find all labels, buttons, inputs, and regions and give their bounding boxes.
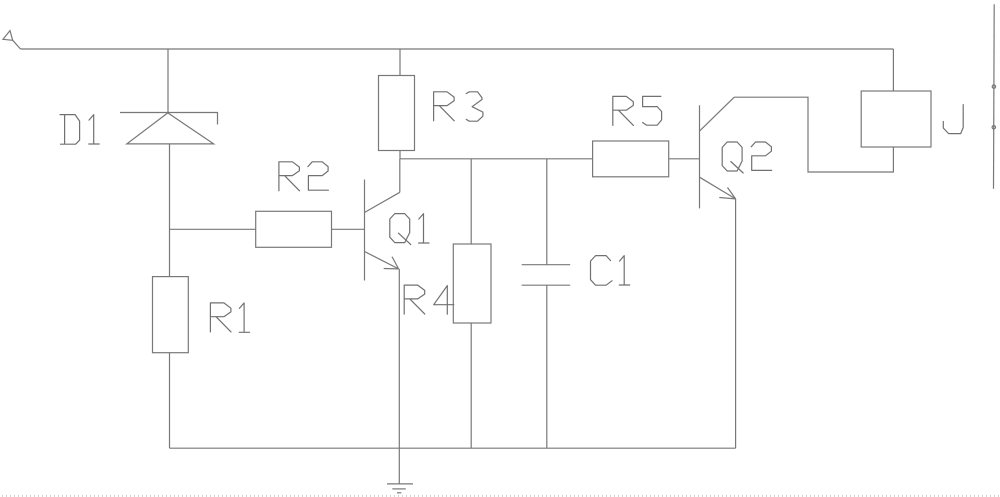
wire base branch to R2 (170, 228, 256, 230)
wire C1 stem top (546, 159, 548, 265)
wire C1 stem bottom (546, 285, 548, 448)
wire Q1 collector up (399, 159, 401, 193)
wire mid rail (400, 158, 593, 160)
label Q2 (722, 142, 772, 173)
transistor Q1 (365, 180, 400, 281)
label C1 (591, 256, 630, 286)
input terminal (3, 31, 21, 49)
label R3 (434, 92, 483, 121)
wire R2 to Q1 base (331, 228, 365, 230)
wire R4 stem bottom (470, 323, 472, 448)
wire top rail (21, 48, 894, 50)
wire D1 to R1 (169, 144, 171, 277)
label Q1 (390, 214, 429, 245)
label R2 (279, 162, 329, 191)
label J (943, 105, 963, 134)
wire R5 to Q2 base (669, 158, 700, 160)
resistor R4 (453, 244, 491, 323)
wire R1 bottom (169, 353, 171, 449)
label D1 (60, 115, 99, 145)
wire Q1 emitter down (398, 269, 400, 448)
resistor R2 (256, 211, 332, 247)
wire R3 stem bottom (399, 151, 401, 159)
transistor Q2 (700, 97, 736, 208)
relay J (861, 91, 931, 147)
diode D1 (120, 113, 218, 144)
wire D1 stem (167, 49, 169, 113)
capacitor C1 (522, 265, 571, 286)
wire Q2 collector route (734, 97, 893, 172)
resistor R3 (379, 76, 415, 151)
wire bottom rail (170, 447, 736, 449)
resistor R1 (153, 277, 189, 353)
label R1 (210, 303, 249, 332)
wire Q2 emitter down (735, 199, 737, 448)
label R5 (613, 96, 662, 125)
ground (387, 448, 413, 493)
label R4 (404, 285, 454, 314)
wire J top stem (892, 49, 894, 91)
wire R4 stem top (470, 159, 472, 244)
wire R3 stem top (399, 49, 401, 76)
resistor R5 (593, 141, 669, 177)
node contact line J terminals (992, 4, 996, 189)
dotted page border bottom (2, 495, 1000, 497)
